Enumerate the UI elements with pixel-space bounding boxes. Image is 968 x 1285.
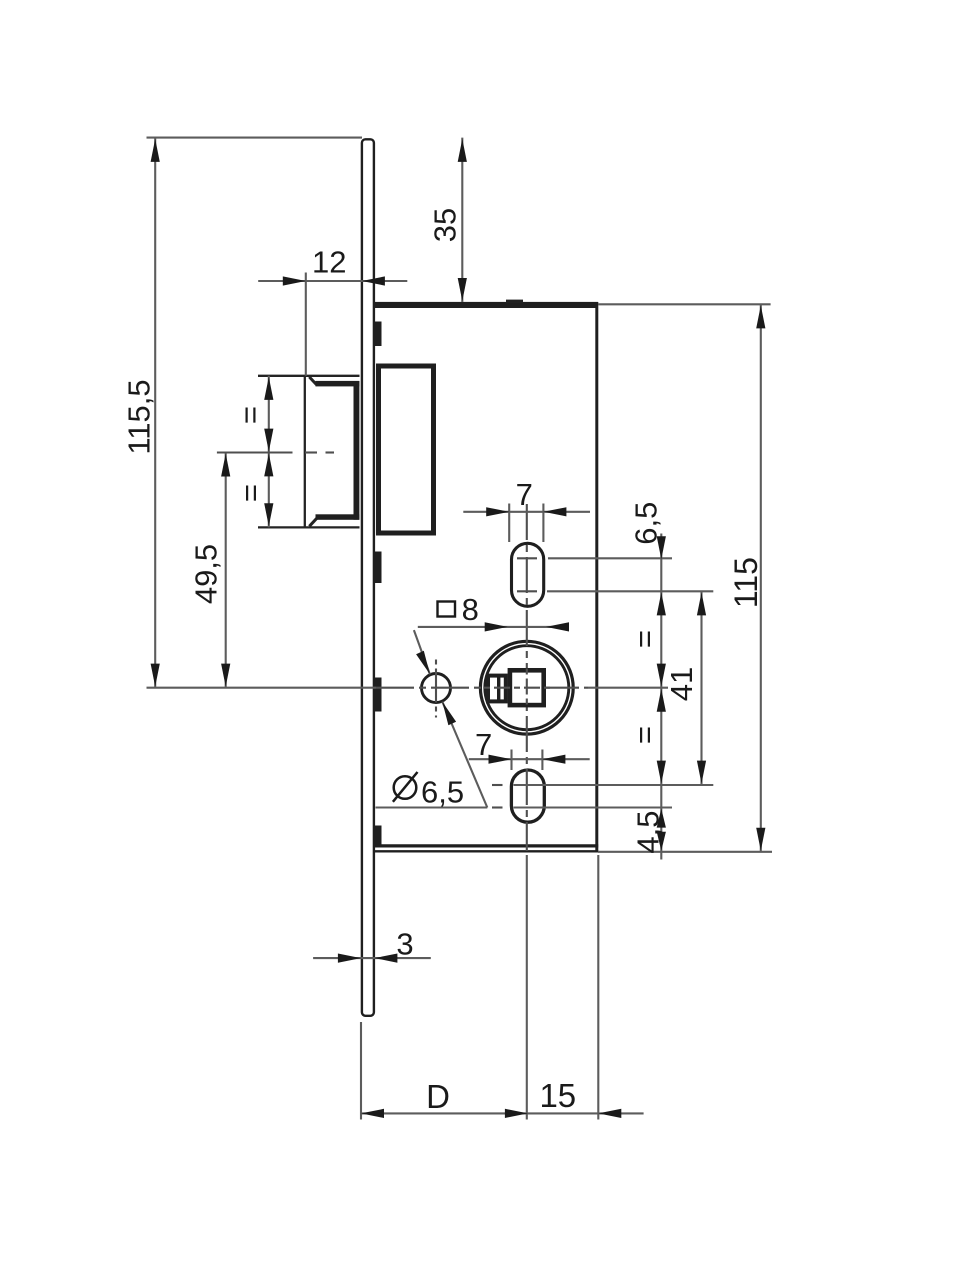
svg-text:=: = [627,630,662,648]
main vertical centre line [526,504,528,851]
extension line for 12 (latch face) [305,273,307,376]
dimension line 115,5 [154,138,156,688]
svg-text:35: 35 [428,208,463,242]
svg-text:6,5: 6,5 [629,502,664,545]
svg-text:41: 41 [664,667,699,701]
svg-text:115,5: 115,5 [122,379,157,454]
dimension line square 8 [418,626,569,628]
svg-text:12: 12 [312,245,346,280]
extension line 6,5 lower / 41 top [547,590,713,592]
bottom screw slot (oval) [511,770,544,822]
extension line bottom oval lower arc centre / 4,5 top + leader tail [376,806,488,808]
centre marks in top oval [517,557,537,559]
leader diagonal for dia 6,5 (lower) [442,702,487,808]
extension line 6,5 upper [548,557,672,559]
svg-text:115: 115 [728,557,764,608]
extension line case top right [598,303,771,305]
faceplate (lock front plate) [362,139,374,1016]
centre line extension to bottom dimension [526,855,528,1120]
leader diagonal for dia 6,5 (upper) [414,630,430,674]
dimension chain 6,5 / = / = / 4,5 [660,534,662,860]
svg-text:D: D [426,1078,450,1115]
svg-text:6,5: 6,5 [421,775,464,810]
svg-text:=: = [627,726,662,744]
top screw slot (oval) [512,543,544,606]
dimension line 3 (plate thickness) [313,957,431,959]
small circle vertical centre line [435,660,437,718]
extension line top (faceplate top) [147,137,363,139]
svg-text:7: 7 [475,727,492,762]
dimension line 12 [258,280,407,282]
lock case bottom edge [374,844,598,847]
extension line case right bottom [597,855,599,1120]
small hole circle (6.5 dia) [422,674,451,703]
lock case top edge [374,302,598,308]
extension lines bottom oval width [510,750,512,771]
dimension line D / 15 [361,1112,644,1114]
latch centre line [217,451,293,453]
dimension line 49,5 [225,453,227,688]
dimension line 115 [760,304,762,852]
fixing tab 3 on case left edge [374,678,381,712]
svg-text:15: 15 [539,1077,576,1114]
svg-text:3: 3 [396,927,413,962]
dimension line 41 [700,591,702,784]
dimension line 7 (bottom) [469,758,590,760]
centre marks inside square hole [484,687,553,689]
fixing tab 1 on case left edge [374,322,381,347]
latch bolt head (protruding) [258,376,360,528]
fixing tab 2 on case left edge [374,552,381,584]
follower outer ring [480,641,573,734]
svg-text:=: = [233,484,268,502]
follower centre line horizontal [147,687,377,689]
svg-text:8: 8 [462,592,479,627]
extension lines top oval width [508,504,510,543]
extension line bottom oval upper arc centre / 41 bottom [492,784,503,786]
dimension line 7 (top) [463,511,590,513]
dimension line 35 [461,138,463,302]
label dia symbol [394,776,417,799]
follower inner ring [485,646,569,730]
follower clip (left of square hole) [488,676,506,702]
latch bolt body inside case [379,366,434,533]
tick mark on case top edge [506,300,523,303]
fixing tab 4 on case left edge [374,826,381,845]
svg-text:49,5: 49,5 [189,544,224,604]
dimension line = (latch symmetric) [268,376,270,528]
svg-text:4,5: 4,5 [631,810,666,853]
svg-text:=: = [233,406,268,424]
lock case right edge [595,302,598,852]
svg-text:7: 7 [516,477,533,512]
label square-8 symbol [438,602,456,617]
extension line case bottom right [598,851,772,853]
square spindle hole 8mm [510,670,544,705]
arrowheads [151,139,766,1118]
extension line faceplate left bottom [360,1022,362,1120]
